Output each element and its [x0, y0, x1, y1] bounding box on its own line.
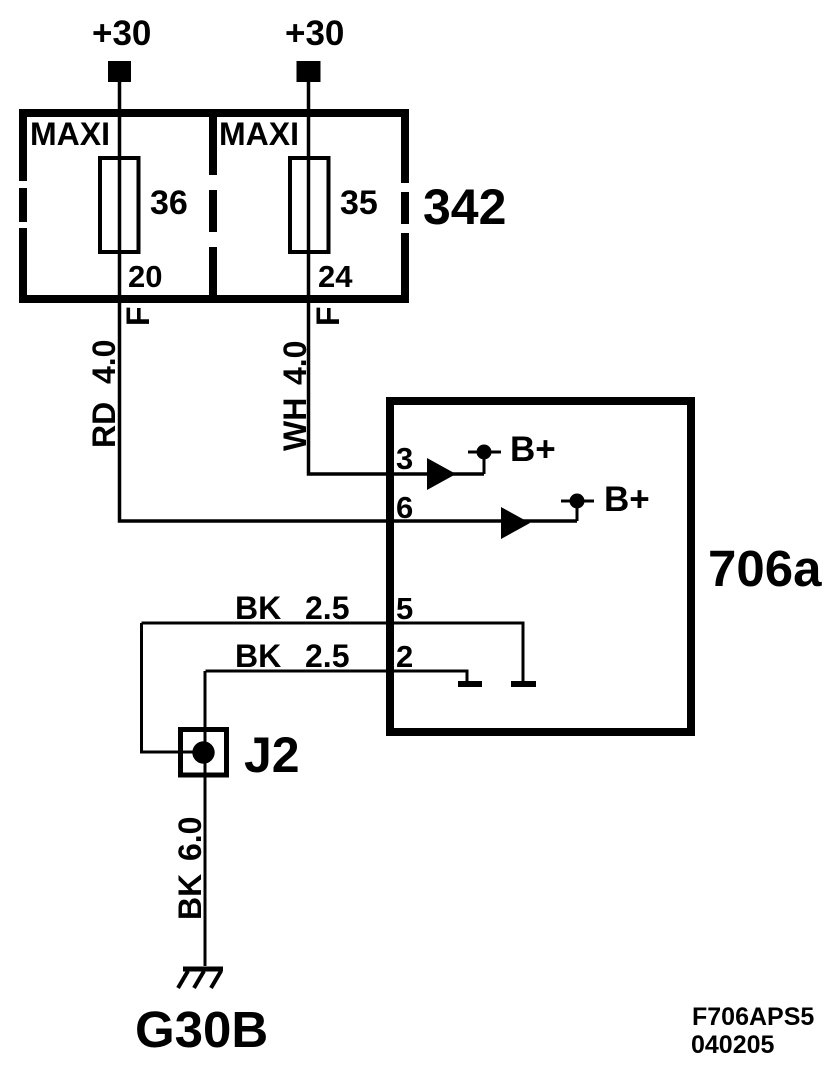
- svg-text:RD: RD: [86, 402, 122, 448]
- svg-text:F706APS5: F706APS5: [692, 1003, 814, 1031]
- svg-text:G30B: G30B: [135, 1001, 268, 1058]
- svg-text:2: 2: [396, 639, 413, 674]
- terminal square +30 right: [297, 61, 321, 82]
- svg-text:BK: BK: [235, 638, 281, 674]
- ground symbol bar: [183, 967, 223, 972]
- wire BK 2.5 to pin 5: [142, 623, 524, 684]
- junction J2 box: [181, 730, 227, 776]
- diode arrow pin 3: [427, 458, 456, 490]
- svg-text:J2: J2: [244, 727, 300, 783]
- wire BK 2.5 to pin 2: [206, 671, 468, 684]
- fusebox 342 divider border (dashed): [209, 109, 217, 303]
- wire RD: from +30 left through fuse 36 down and right to pin 6 of 706a: [120, 82, 578, 521]
- svg-text:B+: B+: [604, 480, 650, 519]
- wire WH: from +30 right through fuse 35 down and right to pin 3 of 706a: [309, 82, 485, 474]
- wire from pin5 line down to junction J2: [142, 623, 196, 752]
- fuse F35 body: [290, 158, 329, 252]
- diode arrow pin 6: [501, 507, 530, 539]
- fuse F36 body: [100, 158, 139, 252]
- svg-text:342: 342: [423, 179, 506, 235]
- svg-text:2.5: 2.5: [305, 638, 349, 674]
- svg-text:MAXI: MAXI: [219, 116, 299, 152]
- svg-text:BK: BK: [172, 874, 208, 920]
- svg-text:24: 24: [318, 259, 353, 294]
- svg-text:F: F: [120, 306, 156, 326]
- fusebox 342 right border (dashed): [401, 109, 409, 303]
- svg-text:+30: +30: [285, 14, 344, 53]
- svg-text:20: 20: [128, 259, 162, 294]
- svg-text:040205: 040205: [691, 1031, 775, 1059]
- riser to B+ node (pin 6): [561, 501, 594, 521]
- svg-text:4.0: 4.0: [277, 341, 313, 385]
- svg-text:5: 5: [396, 591, 413, 626]
- node dot B+ (pin 3): [477, 445, 492, 460]
- svg-text:4.0: 4.0: [86, 340, 122, 384]
- wire from pin2 line down through J2 to ground: [204, 671, 207, 966]
- svg-text:706a: 706a: [708, 540, 822, 597]
- ground bar (pin 5): [511, 681, 536, 687]
- ground bar (pin 2): [458, 681, 482, 687]
- svg-text:6.0: 6.0: [172, 817, 208, 861]
- unit 706a box: [390, 401, 691, 732]
- svg-text:F: F: [310, 306, 346, 326]
- riser to B+ node (pin 3): [468, 452, 501, 474]
- svg-text:WH: WH: [277, 398, 313, 451]
- terminal square +30 left: [108, 61, 131, 82]
- svg-text:35: 35: [340, 184, 378, 222]
- fusebox 342 bottom border: [19, 295, 409, 303]
- svg-text:3: 3: [396, 441, 413, 476]
- node dot B+ (pin 6): [570, 494, 585, 509]
- svg-text:BK: BK: [235, 590, 281, 626]
- junction J2 dot: [192, 741, 214, 763]
- fusebox 342 top border: [19, 109, 409, 117]
- svg-text:MAXI: MAXI: [30, 116, 110, 152]
- svg-text:B+: B+: [510, 430, 556, 469]
- ground symbol hatches: [178, 971, 221, 988]
- svg-text:2.5: 2.5: [305, 590, 349, 626]
- fusebox 342 left border (dashed): [19, 109, 27, 303]
- svg-text:6: 6: [396, 490, 413, 525]
- svg-text:36: 36: [150, 184, 188, 222]
- svg-text:+30: +30: [92, 14, 151, 53]
